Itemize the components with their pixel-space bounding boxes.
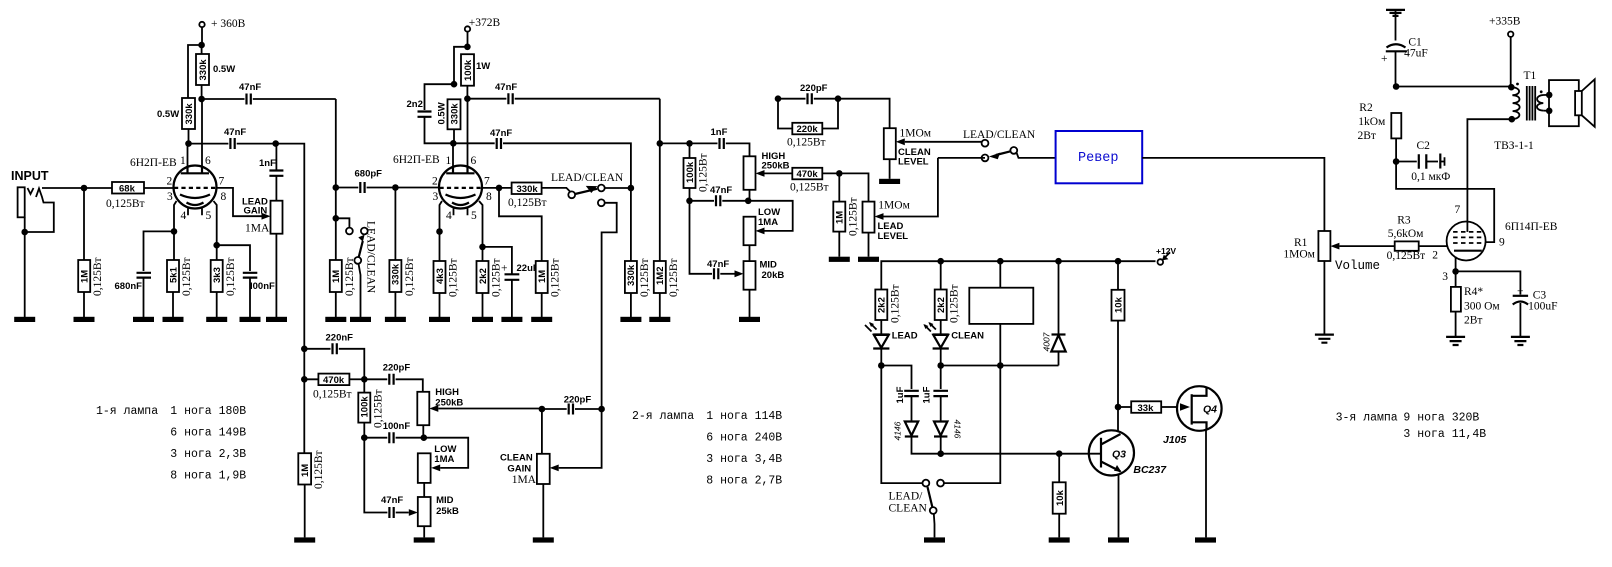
svg-text:3: 3 bbox=[167, 191, 173, 203]
node cathode2 bbox=[213, 242, 220, 249]
svg-text:330k: 330k bbox=[517, 184, 539, 195]
svg-text:2Вт: 2Вт bbox=[1358, 130, 1376, 142]
svg-text:CLEAN: CLEAN bbox=[889, 503, 928, 515]
svg-text:0,125Вт: 0,125Вт bbox=[790, 182, 829, 194]
svg-text:2: 2 bbox=[167, 176, 173, 188]
svg-text:0,125Вт: 0,125Вт bbox=[1387, 250, 1426, 262]
svg-text:+ 360В: + 360В bbox=[211, 18, 246, 30]
node clean gain top junction bbox=[539, 406, 546, 413]
svg-text:4: 4 bbox=[446, 210, 452, 222]
svg-text:330k: 330k bbox=[450, 103, 461, 125]
svg-text:2k2: 2k2 bbox=[936, 297, 947, 313]
resistor R2 1kОм 2Вт bbox=[1358, 102, 1402, 162]
capacitor 2n2 bbox=[407, 99, 454, 143]
ground (mute switch) bbox=[350, 317, 371, 322]
svg-text:+12V: +12V bbox=[1156, 246, 1176, 256]
resistor 100k 0,125Вт (tone series) bbox=[684, 143, 710, 200]
svg-text:1MA: 1MA bbox=[758, 217, 778, 228]
node 680pF feed junction bbox=[333, 184, 340, 191]
node 220pF/220k right junction bbox=[835, 95, 842, 102]
wire pin3 cathode down bbox=[174, 201, 177, 231]
wire t2 pin8 cathode down bbox=[479, 201, 483, 247]
ground (C3, earth style) bbox=[1511, 337, 1530, 345]
svg-text:LEVEL: LEVEL bbox=[898, 157, 929, 168]
svg-text:220nF: 220nF bbox=[326, 333, 354, 344]
node anode1 pin6 junction bbox=[198, 96, 205, 103]
ground (LEAD LEVEL) bbox=[858, 257, 879, 262]
resistor 470k 0,125Вт (upper) bbox=[790, 168, 839, 194]
resistor 330k 0.5W (upper) bbox=[196, 45, 235, 99]
switch SA4 LEAD/CLEAN (bottom) bbox=[881, 366, 944, 538]
label +12V supply arrow bbox=[1156, 246, 1176, 265]
node 1nF top junction bbox=[272, 140, 279, 147]
resistor 100k 1W bbox=[461, 54, 490, 98]
ground (1M) bbox=[74, 317, 95, 322]
node +372V terminal bbox=[465, 17, 501, 32]
svg-text:8: 8 bbox=[221, 191, 227, 203]
ground (1M lead) bbox=[829, 257, 850, 262]
svg-text:GAIN: GAIN bbox=[507, 464, 531, 475]
svg-text:10k: 10k bbox=[1114, 296, 1125, 313]
svg-text:47nF: 47nF bbox=[495, 82, 517, 93]
svg-text:47uF: 47uF bbox=[1404, 48, 1428, 60]
potentiometer HIGH 250kB (lower) bbox=[417, 387, 542, 438]
svg-text:4146: 4146 bbox=[893, 421, 903, 440]
ground (100nF) bbox=[240, 317, 261, 322]
resistor 220k 0,125Вт bbox=[778, 99, 838, 149]
svg-text:0,125Вт: 0,125Вт bbox=[698, 153, 710, 192]
node R2/C2 junction bbox=[1393, 158, 1400, 165]
ground (Q4 source) bbox=[1195, 537, 1216, 542]
svg-text:1МА: 1МА bbox=[434, 454, 454, 465]
resistor 1М2 0,125Вт bbox=[654, 99, 680, 317]
svg-text:470k: 470k bbox=[797, 169, 819, 180]
wire pin8 cathode down bbox=[214, 201, 217, 245]
svg-text:100k: 100k bbox=[360, 396, 371, 418]
ground (4k3) bbox=[429, 317, 450, 322]
switch SA1 LEAD/CLEAN (mute) bbox=[346, 221, 377, 317]
wire screen to pin9 bbox=[1396, 162, 1494, 243]
svg-text:8: 8 bbox=[486, 191, 492, 203]
node 220pF/220k left junction bbox=[775, 95, 782, 102]
svg-text:R2: R2 bbox=[1359, 102, 1373, 114]
wire relay node to 4007 bbox=[1000, 365, 1058, 367]
node pin7 grid leak tap bbox=[496, 185, 503, 192]
capacitor 22uF (cathode bypass) bbox=[483, 247, 539, 317]
ground (MID 25kB) bbox=[414, 537, 435, 542]
svg-text:330k: 330k bbox=[198, 59, 209, 81]
svg-text:1 нога 180В: 1 нога 180В bbox=[170, 405, 246, 418]
svg-text:1МОм: 1МОм bbox=[1283, 249, 1315, 261]
svg-text:1nF: 1nF bbox=[711, 127, 728, 138]
capacitor 680nF bbox=[115, 273, 152, 317]
svg-text:0,125Вт: 0,125Вт bbox=[344, 257, 356, 296]
label 1-я лампа voltages bbox=[96, 405, 246, 483]
svg-text:1: 1 bbox=[180, 155, 186, 167]
svg-text:ТВЗ-1-1: ТВЗ-1-1 bbox=[1494, 140, 1534, 152]
ground (input) bbox=[14, 317, 35, 322]
svg-text:680pF: 680pF bbox=[355, 169, 383, 180]
wire pin3 cathode bbox=[1455, 257, 1457, 272]
wire junction to switch contact bbox=[336, 218, 350, 228]
capacitor C1 47uF bbox=[1381, 37, 1428, 87]
node 470k right junction bbox=[361, 376, 368, 383]
resistor 330k 0,125Вт (t2 grid shunt) bbox=[389, 188, 416, 318]
node mute switch junction bbox=[333, 215, 340, 222]
node grid1 divider bbox=[81, 185, 88, 192]
svg-text:47nF: 47nF bbox=[239, 82, 261, 93]
svg-text:3-я лампа: 3-я лампа bbox=[1336, 412, 1398, 425]
node rail 10k branch bbox=[1115, 258, 1122, 265]
svg-text:0,125Вт: 0,125Вт bbox=[313, 450, 325, 489]
resistor 33k bbox=[1118, 401, 1190, 414]
resistor 100k 0,125Вт (lower) bbox=[358, 379, 384, 437]
svg-text:3k3: 3k3 bbox=[212, 267, 223, 283]
svg-text:5: 5 bbox=[206, 210, 212, 222]
wire t2 pin7 bbox=[482, 187, 512, 189]
wire lead node to 1uF chain bbox=[881, 366, 911, 390]
node lead led cathode bbox=[878, 362, 885, 369]
svg-text:Ревер: Ревер bbox=[1078, 151, 1119, 166]
potentiometer HIGH 250kB (upper) bbox=[744, 151, 793, 201]
tube U2 6Н2П-ЕВ triode circle bbox=[432, 155, 492, 222]
svg-text:33k: 33k bbox=[1138, 403, 1155, 414]
resistor 470k 0,125Вт (lower) bbox=[304, 349, 364, 401]
ground (1M grid leak) bbox=[325, 317, 346, 322]
svg-text:CLEAN: CLEAN bbox=[951, 331, 984, 342]
svg-text:0,125Вт: 0,125Вт bbox=[448, 258, 460, 297]
svg-text:BC237: BC237 bbox=[1133, 464, 1167, 476]
wire to 2n2 bbox=[425, 84, 455, 110]
potentiometer MID 25kB (lower) bbox=[418, 495, 459, 537]
resistor 1M 0,125Вт (input shunt) bbox=[78, 188, 104, 317]
LED LEAD bbox=[864, 322, 918, 366]
wire primary bottom to pin7 bbox=[1467, 119, 1511, 222]
transformer T1 primary bbox=[1508, 70, 1537, 122]
resistor R4* 300 Ом 2Вт bbox=[1451, 271, 1501, 337]
label 3-я лампа voltages bbox=[1336, 412, 1487, 442]
svg-text:47nF: 47nF bbox=[224, 127, 246, 138]
svg-text:7: 7 bbox=[1455, 204, 1461, 216]
svg-text:LEAD/: LEAD/ bbox=[889, 491, 924, 503]
diode 4146 (lead) bbox=[893, 421, 941, 453]
node clean throw junction bbox=[598, 406, 605, 413]
capacitor C3 100uF bbox=[1456, 271, 1558, 337]
node tone feed junction bbox=[657, 140, 664, 147]
resistor 68k 0,125Вт bbox=[106, 182, 174, 210]
svg-text:6П14П-ЕВ: 6П14П-ЕВ bbox=[1505, 221, 1558, 233]
switch SA2 LEAD/CLEAN (channel) bbox=[551, 172, 624, 206]
ground (C1 top, earth style) bbox=[1386, 10, 1405, 41]
svg-text:2Вт: 2Вт bbox=[1464, 315, 1482, 327]
resistor 10k (Q3 collector) bbox=[1112, 261, 1125, 407]
svg-text:Volume: Volume bbox=[1335, 259, 1380, 273]
svg-text:T1: T1 bbox=[1524, 70, 1537, 82]
svg-text:6: 6 bbox=[205, 155, 211, 167]
svg-text:1kОм: 1kОм bbox=[1358, 116, 1386, 128]
capacitor 1nF bbox=[259, 144, 283, 201]
svg-text:680nF: 680nF bbox=[115, 281, 143, 292]
svg-text:250kB: 250kB bbox=[435, 398, 463, 409]
ground (CLEAN GAIN) bbox=[533, 537, 554, 542]
svg-text:2k2: 2k2 bbox=[478, 268, 489, 284]
svg-text:1M: 1M bbox=[300, 464, 311, 477]
ground (10k base) bbox=[1049, 537, 1070, 542]
node diode mix junction bbox=[937, 450, 944, 457]
transistor Q4 J105 bbox=[1163, 386, 1222, 537]
svg-text:0,125Вт: 0,125Вт bbox=[949, 284, 961, 323]
svg-text:3 нога 2,3В: 3 нога 2,3В bbox=[170, 448, 246, 461]
ground (1M t2) bbox=[531, 317, 552, 322]
capacitor 47nF (coupling from pin1) bbox=[189, 127, 276, 149]
capacitor 1uF (clean) bbox=[922, 366, 949, 421]
svg-text:+372В: +372В bbox=[469, 17, 501, 29]
resistor 10k (Q3 base load) bbox=[1053, 454, 1066, 538]
wire screen node to transformer bbox=[1396, 86, 1511, 88]
resistor 4k3 0,125Вт bbox=[434, 232, 460, 318]
capacitor 100nF bbox=[217, 245, 275, 317]
node relay bottom junction bbox=[997, 362, 1004, 369]
node rail 4007 branch bbox=[1055, 258, 1062, 265]
node +360V terminal bbox=[199, 18, 245, 30]
resistor 1M 0,125Вт (t2 pin7 leak) bbox=[499, 188, 562, 317]
svg-text:330k: 330k bbox=[184, 103, 195, 125]
resistor 330k 0,125Вт (t2 pin7 series) bbox=[508, 183, 570, 210]
node rail relay branch bbox=[997, 258, 1004, 265]
wire +12V rail bbox=[881, 261, 1155, 289]
svg-text:9 нога 320В: 9 нога 320В bbox=[1403, 412, 1479, 425]
ground (5k1) bbox=[163, 317, 184, 322]
box Ревер (reverb unit) bbox=[1056, 131, 1143, 183]
svg-text:2: 2 bbox=[1432, 250, 1438, 262]
svg-text:250kB: 250kB bbox=[762, 161, 790, 172]
node 470k out junction bbox=[836, 170, 843, 177]
ground (330k) bbox=[385, 317, 406, 322]
svg-text:0,125Вт: 0,125Вт bbox=[550, 258, 562, 297]
svg-text:470k: 470k bbox=[323, 375, 345, 386]
svg-text:2n2: 2n2 bbox=[407, 99, 423, 110]
node collector/33k junction bbox=[1115, 404, 1122, 411]
ground (2k2) bbox=[472, 317, 493, 322]
svg-text:1W: 1W bbox=[476, 61, 490, 72]
svg-text:LEAD/CLEAN: LEAD/CLEAN bbox=[963, 129, 1036, 141]
ground (1M lower) bbox=[294, 537, 315, 542]
potentiometer R1 1МОм Volume bbox=[1283, 231, 1380, 335]
ground (MID pot) bbox=[739, 317, 760, 322]
capacitor 100nF (lower) bbox=[364, 421, 424, 443]
node 100k bottom junction bbox=[686, 198, 693, 205]
svg-text:0.5W: 0.5W bbox=[437, 102, 448, 124]
ground (R4, earth style) bbox=[1446, 337, 1465, 345]
node 100k bottom junction (lower) bbox=[361, 434, 368, 441]
wire supply down bbox=[467, 32, 469, 47]
svg-text:2-я лампа: 2-я лампа bbox=[632, 410, 694, 423]
node cathode1 bbox=[171, 228, 178, 235]
wire t2 pin6 anode up bbox=[467, 99, 469, 166]
label 2-я лампа voltages bbox=[632, 410, 782, 488]
LED CLEAN bbox=[923, 322, 984, 366]
svg-text:1МА: 1МА bbox=[512, 474, 537, 486]
svg-text:1M: 1M bbox=[80, 270, 91, 283]
svg-text:5k1: 5k1 bbox=[168, 266, 179, 283]
potentiometer CLEAN LEVEL 1МОм bbox=[884, 128, 982, 179]
ground (680nF) bbox=[133, 317, 154, 322]
svg-text:47nF: 47nF bbox=[381, 495, 403, 506]
svg-text:INPUT: INPUT bbox=[11, 169, 49, 183]
potentiometer LOW 1MA (upper) bbox=[744, 201, 793, 261]
svg-text:0,125Вт: 0,125Вт bbox=[639, 258, 651, 297]
node cathode junction (output tube) bbox=[1452, 268, 1459, 275]
ground (3k3) bbox=[206, 317, 227, 322]
node 220nF left junction bbox=[301, 346, 308, 353]
svg-text:0.5W: 0.5W bbox=[213, 64, 235, 75]
svg-text:3 нога 3,4В: 3 нога 3,4В bbox=[706, 453, 782, 466]
svg-text:CLEAN: CLEAN bbox=[500, 453, 533, 464]
node HIGH/LOW junction bbox=[745, 198, 752, 205]
svg-text:1МА: 1МА bbox=[245, 223, 270, 235]
wire t2 pin1 anode up bbox=[452, 143, 454, 166]
resistor 5k1 0,125Вт bbox=[167, 231, 193, 317]
resistor 330k 0.5W (t2 plate) bbox=[437, 99, 461, 143]
svg-text:25kB: 25kB bbox=[436, 506, 459, 517]
svg-text:1: 1 bbox=[446, 155, 452, 167]
capacitor 1nF (treble) bbox=[690, 127, 750, 156]
svg-text:J105: J105 bbox=[1163, 434, 1187, 446]
node jack sleeve junction bbox=[21, 229, 28, 236]
svg-text:HIGH: HIGH bbox=[435, 387, 459, 398]
resistor 2k2 0,125Вт (LEAD led) bbox=[875, 284, 901, 334]
wire to CLEAN LEVEL pot bbox=[838, 99, 890, 129]
svg-text:MID: MID bbox=[760, 260, 778, 271]
capacitor 220pF (lower treble) bbox=[364, 363, 423, 392]
capacitor 220pF (bridge) bbox=[778, 83, 838, 104]
svg-text:6Н2П-ЕВ: 6Н2П-ЕВ bbox=[130, 157, 177, 169]
capacitor 47nF (coupling from pin6) bbox=[202, 82, 336, 105]
svg-text:3: 3 bbox=[1442, 271, 1448, 283]
node +335V terminal bbox=[1489, 16, 1521, 87]
svg-text:0,125Вт: 0,125Вт bbox=[181, 257, 193, 296]
svg-text:6Н2П-ЕВ: 6Н2П-ЕВ bbox=[393, 154, 440, 166]
svg-text:330k: 330k bbox=[391, 263, 402, 285]
svg-text:+: + bbox=[501, 263, 508, 275]
svg-text:1МОм: 1МОм bbox=[878, 200, 910, 212]
wire pin1 anode up bbox=[187, 144, 189, 166]
svg-text:300 Ом: 300 Ом bbox=[1464, 301, 1500, 313]
svg-text:0,125Вт: 0,125Вт bbox=[404, 257, 416, 296]
svg-text:1МОм: 1МОм bbox=[900, 128, 932, 140]
svg-text:0.5W: 0.5W bbox=[157, 109, 179, 120]
svg-text:9: 9 bbox=[1499, 237, 1505, 249]
wire jack to ground bbox=[24, 232, 26, 317]
input jack J1 bbox=[18, 187, 54, 232]
resistor 2k2 0,125Вт (CLEAN led) bbox=[935, 261, 961, 334]
wire pin7 to pot bbox=[217, 188, 263, 216]
tube U1 6Н2П-ЕВ triode circle bbox=[130, 155, 227, 222]
node anode t2 pin1 junction bbox=[450, 140, 457, 147]
ground (R1, earth style) bbox=[1315, 335, 1334, 343]
wire input signal bbox=[42, 187, 112, 189]
svg-text:3 нога 11,4В: 3 нога 11,4В bbox=[1403, 428, 1486, 441]
potentiometer LEAD GAIN 1МА bbox=[242, 197, 283, 318]
node tube2 grid junction bbox=[392, 184, 399, 191]
resistor 2k2 0,125Вт bbox=[477, 247, 503, 317]
node 470k left junction bbox=[301, 376, 308, 383]
svg-text:R3: R3 bbox=[1397, 215, 1411, 227]
svg-text:0,125Вт: 0,125Вт bbox=[313, 389, 352, 401]
svg-text:4k3: 4k3 bbox=[435, 268, 446, 284]
ground (Q3 emitter) bbox=[1108, 537, 1129, 542]
resistor 1M 0,125Вт (grid leak t2) bbox=[330, 188, 356, 318]
wire branch left to 330k/2n2 bbox=[454, 47, 467, 84]
transformer T1 core bbox=[1527, 86, 1535, 121]
transformer T1 secondary bbox=[1537, 90, 1549, 110]
svg-text:6: 6 bbox=[471, 155, 477, 167]
potentiometer LEAD LEVEL 1МОм bbox=[839, 158, 938, 257]
svg-text:R1: R1 bbox=[1294, 237, 1308, 249]
capacitor 220pF (clean) bbox=[542, 395, 602, 415]
svg-text:7: 7 bbox=[484, 176, 490, 188]
ground (330k lead load) bbox=[620, 317, 641, 322]
capacitor 47nF (lower mid) bbox=[364, 438, 418, 518]
svg-text:0,125Вт: 0,125Вт bbox=[106, 198, 145, 210]
svg-text:1М2: 1М2 bbox=[655, 267, 666, 285]
ground (LEAD GAIN pot) bbox=[266, 317, 287, 322]
node C1/R2 junction bbox=[1393, 83, 1400, 90]
svg-text:7: 7 bbox=[219, 176, 225, 188]
capacitor 680pF bbox=[336, 169, 396, 194]
svg-text:6 нога 240В: 6 нога 240В bbox=[706, 432, 782, 445]
svg-text:100k: 100k bbox=[685, 161, 696, 183]
ground (1М2) bbox=[649, 317, 670, 322]
node supply junction t2 bbox=[464, 44, 471, 51]
svg-text:20kB: 20kB bbox=[762, 270, 785, 281]
resistor 330k 0,125Вт (lead load) bbox=[625, 188, 651, 317]
potentiometer LOW 1MA (lower) bbox=[418, 438, 468, 497]
svg-text:0,125Вт: 0,125Вт bbox=[225, 257, 237, 296]
svg-text:1 нога 114В: 1 нога 114В bbox=[706, 410, 782, 423]
capacitor 1uF (lead) bbox=[895, 386, 919, 420]
svg-text:R4*: R4* bbox=[1464, 286, 1483, 298]
svg-text:1uF: 1uF bbox=[922, 386, 933, 403]
node supply junction bbox=[198, 42, 205, 49]
svg-text:8 нога 2,7В: 8 нога 2,7В bbox=[706, 475, 782, 488]
svg-text:LEVEL: LEVEL bbox=[878, 231, 909, 242]
speaker bbox=[1546, 79, 1595, 127]
wire t2 pin3 cathode down bbox=[440, 201, 443, 232]
svg-text:330k: 330k bbox=[626, 264, 637, 286]
wire clean throw dogleg down bbox=[602, 203, 617, 409]
relay box bbox=[969, 261, 1033, 365]
node anode1 pin1 junction bbox=[185, 140, 192, 147]
svg-text:47nF: 47nF bbox=[710, 185, 732, 196]
ground (switch SA4) bbox=[924, 537, 945, 542]
svg-text:0,125Вт: 0,125Вт bbox=[890, 284, 902, 323]
svg-text:1uF: 1uF bbox=[895, 386, 906, 403]
svg-text:5: 5 bbox=[471, 210, 477, 222]
wire clean node to rail segment bbox=[941, 365, 1001, 367]
capacitor 47nF (low mix) bbox=[690, 185, 749, 206]
wire tone feed right bbox=[660, 142, 690, 144]
wire switch bottom throw to lead level bbox=[938, 157, 985, 159]
svg-text:68k: 68k bbox=[119, 184, 136, 195]
svg-text:+335В: +335В bbox=[1489, 16, 1521, 28]
node HIGH/LOW junction (lower) bbox=[421, 434, 428, 441]
node anode t2 pin6 junction bbox=[464, 95, 471, 102]
svg-text:4: 4 bbox=[181, 210, 187, 222]
svg-text:220k: 220k bbox=[797, 124, 819, 135]
ground (22uF) bbox=[501, 317, 522, 322]
svg-text:100nF: 100nF bbox=[383, 421, 411, 432]
